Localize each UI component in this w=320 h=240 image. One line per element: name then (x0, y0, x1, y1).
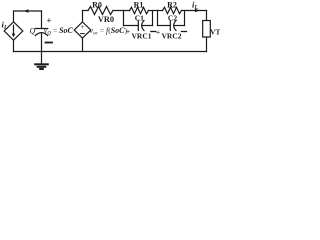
svg-text:iL: iL (2, 20, 8, 32)
minus sign (cap Q) (46, 42, 53, 44)
bottom rail wire (14, 51, 207, 53)
wire RC1 to RC2 (149, 10, 163, 12)
svg-text:+: + (46, 16, 51, 26)
wire top-left with arrow (14, 9, 42, 13)
svg-text:VRC1: VRC1 (132, 32, 152, 41)
minus inside E1 (81, 33, 85, 35)
svg-text:vQ = SoC: vQ = SoC (44, 26, 74, 37)
RC pair 1: right vertical wire (152, 11, 154, 26)
svg-text:R2: R2 (167, 1, 177, 10)
RC pair 2: bottom wire right (174, 25, 184, 27)
load element VT box (203, 21, 211, 38)
svg-text:VT: VT (210, 29, 220, 37)
wire down to VT box (206, 11, 208, 21)
svg-text:R1: R1 (134, 1, 144, 10)
resistor R1 (130, 7, 149, 13)
svg-text:Q: Q (30, 27, 36, 36)
svg-text:VRC2: VRC2 (162, 32, 182, 41)
wire RC2 to VT with arrow (182, 9, 207, 13)
ground (35, 52, 48, 70)
dependent voltage source E1 (74, 11, 91, 52)
RC pair 2: right vertical wire (184, 11, 186, 26)
minus sign (VRC1) (151, 31, 156, 33)
svg-text:+: + (81, 23, 85, 31)
capacitor C2 (170, 21, 176, 31)
svg-text:C1: C1 (135, 14, 144, 23)
wire E1 to R0 (83, 10, 89, 12)
svg-text:C2: C2 (168, 14, 177, 23)
capacitor Q (35, 11, 47, 52)
svg-text:iL: iL (192, 0, 198, 11)
capacitor C1 (138, 21, 144, 31)
RC pair 1: bottom wire left (124, 25, 139, 27)
RC pair 1: bottom wire right (142, 25, 152, 27)
minus sign (VRC2) (182, 31, 187, 33)
wire VT to bottom rail (206, 37, 208, 52)
resistor R0 (88, 7, 113, 15)
resistor R2 (163, 7, 182, 13)
svg-text:+: + (126, 28, 131, 37)
current source I1 (4, 11, 23, 52)
wire R0 to RC1 (113, 10, 130, 12)
RC pair 2: bottom wire left (158, 25, 171, 27)
svg-text:voc = f(SoC): voc = f(SoC) (90, 26, 128, 37)
RC pair 1: left vertical wire (123, 11, 125, 26)
RC pair 2: left vertical wire (157, 11, 159, 26)
svg-text:R0: R0 (92, 1, 102, 10)
svg-text:VR0: VR0 (98, 15, 114, 24)
svg-text:+: + (156, 28, 161, 37)
